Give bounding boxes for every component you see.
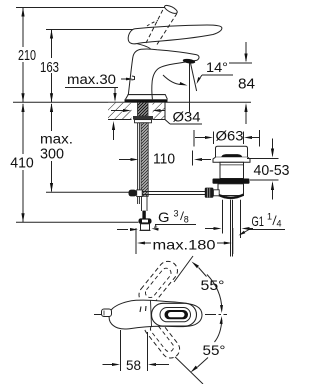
svg-text:max.180: max.180: [153, 237, 216, 253]
svg-text:210: 210: [18, 48, 36, 64]
svg-text:58: 58: [126, 357, 141, 373]
svg-text:300: 300: [40, 146, 64, 162]
svg-text:55°: 55°: [201, 277, 225, 293]
svg-text:max.30: max.30: [67, 72, 116, 87]
svg-text:410: 410: [10, 156, 34, 172]
svg-text:40-53: 40-53: [254, 163, 290, 179]
svg-text:163: 163: [40, 60, 59, 76]
svg-text:G1: G1: [252, 213, 265, 229]
svg-text:max.: max.: [40, 132, 73, 147]
svg-text:14°: 14°: [206, 59, 228, 75]
svg-text:3: 3: [174, 209, 179, 219]
svg-text:4: 4: [277, 219, 282, 229]
svg-text:8: 8: [184, 215, 189, 225]
svg-text:1: 1: [267, 212, 272, 222]
svg-text:55°: 55°: [203, 342, 226, 358]
svg-text:G: G: [158, 209, 170, 225]
svg-text:84: 84: [238, 77, 255, 93]
svg-text:110: 110: [153, 151, 175, 167]
svg-text:Ø63: Ø63: [216, 127, 244, 143]
svg-text:Ø34: Ø34: [173, 108, 201, 124]
